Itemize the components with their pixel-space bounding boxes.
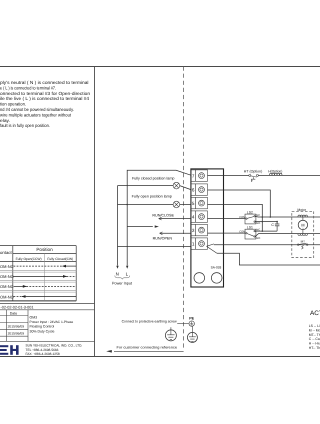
svg-text:wire multiple actuators togeth: wire multiple actuators together without <box>0 112 72 117</box>
svg-text:fault is in fully open positio: fault is in fully open position. <box>0 123 50 128</box>
svg-text:C: C <box>271 223 274 227</box>
LEGEND <box>309 310 320 350</box>
table row LS2 COM-NC state arrow <box>14 285 77 288</box>
svg-text:2015/06/09: 2015/06/09 <box>8 331 25 335</box>
svg-text:elay.: elay. <box>0 118 10 123</box>
lamp fully open <box>173 201 180 208</box>
svg-text:SUN YEH ELECTRICAL IND. CO., L: SUN YEH ELECTRICAL IND. CO., LTD. <box>26 343 83 347</box>
wire RUN/OPEN to terminal 3 <box>160 232 191 235</box>
wire LS2 NO to capacitor <box>255 222 277 224</box>
title block text <box>8 312 83 356</box>
capacitor C <box>275 224 280 231</box>
wire LS1 NO to motor bottom <box>255 234 320 237</box>
heater H <box>270 173 283 175</box>
svg-text:tion operation.: tion operation. <box>0 102 26 107</box>
svg-text:Fully Open(CCW): Fully Open(CCW) <box>16 257 42 261</box>
table row LS2 COM-NO state arrow <box>14 295 77 298</box>
sheet border bottom <box>0 356 320 358</box>
svg-text:Position: Position <box>36 247 53 252</box>
svg-text:LS -- Lim: LS -- Lim <box>309 324 320 328</box>
svg-text:nd #4 cannot be powered simult: nd #4 cannot be powered simultaneously. <box>0 107 74 112</box>
svg-text:H -- Hea: H -- Hea <box>309 342 320 346</box>
limit switch LS1 <box>245 229 256 239</box>
svg-text:L: L <box>126 271 129 276</box>
svg-text:5: 5 <box>192 201 195 206</box>
svg-text:Power Input: Power Input <box>112 282 133 286</box>
svg-text:Fully Closed(CW): Fully Closed(CW) <box>47 257 73 261</box>
table header text <box>0 247 73 299</box>
table row LS1 COM-NC state arrow <box>14 265 77 268</box>
svg-text:6: 6 <box>192 187 195 192</box>
svg-text:SA-093: SA-093 <box>211 266 222 270</box>
L feed arrowhead <box>126 266 128 269</box>
power input brace <box>115 276 130 280</box>
svg-text:MT: MT <box>301 239 305 243</box>
svg-text:NO: NO <box>256 237 260 240</box>
sheet border top <box>0 66 320 68</box>
svg-text:-02-02-02-01-3-001: -02-02-02-01-3-001 <box>1 305 34 309</box>
svg-text:e ( L ) is connected to termin: e ( L ) is connected to terminal #7. <box>0 85 56 90</box>
svg-text:ontact: ontact <box>0 250 13 255</box>
svg-text:2015/06/09: 2015/06/09 <box>8 325 25 329</box>
terminal 3 <box>191 224 208 235</box>
wire fully open lamp to terminal 5 <box>118 204 191 206</box>
thermal protector MT <box>297 243 308 249</box>
svg-text:Date: Date <box>10 312 18 316</box>
svg-text:Connect to protective earthing: Connect to protective earthing screw <box>122 319 177 323</box>
earthing screw right <box>187 326 197 342</box>
N feed arrowhead <box>116 266 118 269</box>
reference arrow <box>106 350 183 353</box>
svg-text:RUN/CLOSE: RUN/CLOSE <box>152 213 174 217</box>
svg-text:MT-- Th: MT-- Th <box>309 333 320 337</box>
drawing number bar <box>0 303 95 309</box>
table row separators <box>0 271 76 292</box>
svg-text:LS2: LS2 <box>247 210 253 214</box>
wire motor common to terminal 1 <box>214 244 320 246</box>
junction dots <box>262 216 278 232</box>
wire annotation to PE <box>177 322 189 324</box>
title block <box>0 310 95 342</box>
svg-text:OM-NO: OM-NO <box>0 294 14 299</box>
contact position table <box>0 246 76 301</box>
terminal 7 <box>191 170 208 181</box>
wire RUN/CLOSE to terminal 4 <box>159 217 191 220</box>
thermostat HT <box>249 174 259 181</box>
svg-text:HT (Option): HT (Option) <box>244 170 262 174</box>
terminal 1 <box>191 238 208 249</box>
wire terminal 3 to LS1 COM <box>208 232 246 234</box>
PE terminal circle <box>189 321 194 326</box>
terminal 5 <box>191 197 208 208</box>
svg-text:Power Input : 24VAC 1-Phase: Power Input : 24VAC 1-Phase <box>30 320 74 324</box>
wire LS2 NC to motor top <box>255 215 320 218</box>
earthing screw left <box>165 327 176 341</box>
wire LS1 NC to capacitor <box>255 230 277 232</box>
svg-text:H(Option): H(Option) <box>268 170 282 174</box>
svg-text:For customer connecting refere: For customer connecting reference <box>117 345 178 349</box>
svg-text:7: 7 <box>192 173 195 178</box>
wire neutral to terminal 1 <box>118 245 191 247</box>
enclosure boundary dashed <box>183 67 185 349</box>
wire terminal 7 heater circuit <box>208 174 320 176</box>
svg-text:ply's neutral ( N ) is connect: ply's neutral ( N ) is connected to term… <box>0 80 89 85</box>
svg-text:PE: PE <box>189 316 194 320</box>
strip mounting hole left <box>194 273 205 284</box>
lamp fully closed <box>173 182 180 189</box>
company logo <box>0 345 19 355</box>
terminal strip SA-093 body <box>191 169 224 287</box>
live branch arrow <box>127 225 159 227</box>
svg-text:ile the live ( L ) is connecte: ile the live ( L ) is connected to termi… <box>0 96 90 101</box>
svg-text:ACTU: ACTU <box>310 310 320 317</box>
motor winding top <box>298 215 308 217</box>
svg-text:Fully open position lamp: Fully open position lamp <box>132 194 172 198</box>
wire terminal 6 to motor top <box>208 190 271 217</box>
svg-text:FAX: +886-4-2698-1258: FAX: +886-4-2698-1258 <box>26 352 60 356</box>
svg-text:C -- Cap: C -- Cap <box>309 337 320 341</box>
svg-text:OM-NO: OM-NO <box>0 274 14 279</box>
svg-text:LS1: LS1 <box>247 226 253 230</box>
motor winding bottom <box>298 234 308 236</box>
junction open lamp wire over L <box>126 204 128 206</box>
wire terminal 4 to LS2 COM <box>208 218 246 220</box>
wire L feed from terminal 7 <box>127 170 191 265</box>
notes text <box>0 80 91 128</box>
svg-text:1: 1 <box>192 241 195 246</box>
svg-text:M -- Mot: M -- Mot <box>309 328 320 332</box>
svg-text:N: N <box>116 271 119 276</box>
table row LS1 COM-NO state arrow <box>14 275 77 278</box>
svg-text:OM-NC: OM-NC <box>0 264 14 269</box>
svg-text:NO: NO <box>256 222 260 225</box>
terminal 4 <box>191 211 208 222</box>
strip mounting hole right <box>211 273 222 284</box>
svg-text:Fully closed position lamp: Fully closed position lamp <box>132 177 175 181</box>
svg-text:Floating Control: Floating Control <box>30 325 55 329</box>
svg-text:HT-- Th: HT-- Th <box>309 346 320 350</box>
svg-text:Motor: Motor <box>297 208 307 212</box>
wire heater return <box>217 253 320 265</box>
svg-text:onnected to terminal #3 for Op: onnected to terminal #3 for Open-directi… <box>0 91 91 96</box>
motor M <box>298 217 307 234</box>
limit switch LS2 <box>245 214 256 224</box>
sheet border vertical <box>94 67 96 357</box>
wire terminal 5 to LS1 NC node <box>208 204 263 231</box>
motor enclosure <box>292 211 314 257</box>
svg-text:3: 3 <box>192 228 195 233</box>
svg-text:OM-NC: OM-NC <box>0 284 14 289</box>
terminal 1 connector arrow <box>207 244 217 253</box>
svg-text:30% Duty Cycle: 30% Duty Cycle <box>30 329 55 333</box>
wire N feed with fully closed lamp branch <box>118 186 191 266</box>
terminal 6 <box>191 184 208 195</box>
svg-text:RUN/OPEN: RUN/OPEN <box>153 236 173 240</box>
svg-text:4: 4 <box>192 214 195 219</box>
